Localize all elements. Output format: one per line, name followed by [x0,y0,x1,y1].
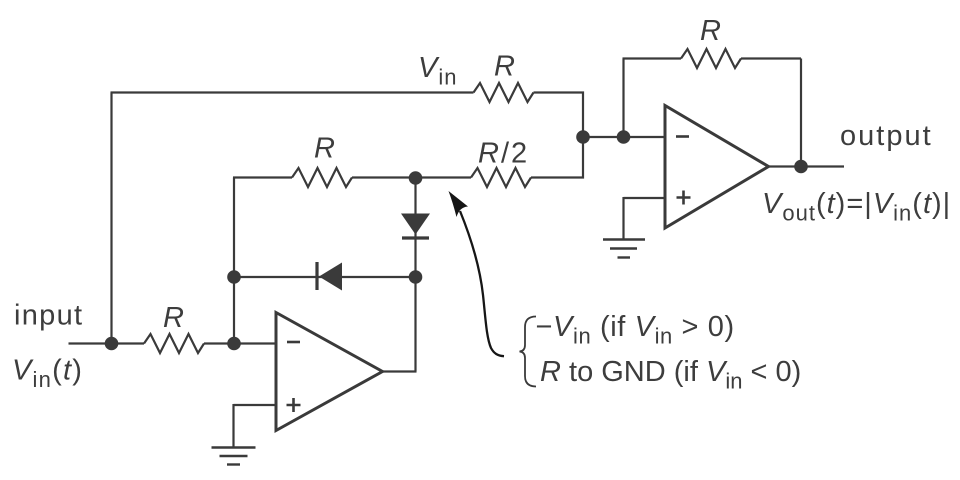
op-amp U1 [276,313,383,431]
svg-text:R to GND (if Vin < 0): R to GND (if Vin < 0) [540,356,801,394]
node U1 inverting input [227,337,241,351]
resistor R5 (feedback R of U2) [681,49,741,68]
node D1 anode / R junction [409,171,423,185]
wire U1 noninverting input to ground [234,404,277,448]
svg-text:input: input [14,300,83,332]
svg-text:−Vin (if Vin > 0): −Vin (if Vin > 0) [536,311,735,349]
wire U2 noninverting input to ground [624,197,666,240]
diode D1 (vertical, conducting down) [401,214,430,239]
svg-text:R: R [163,302,184,334]
svg-text:Vin(t): Vin(t) [12,355,83,393]
wire R4 right up to summing node [531,137,583,178]
node U2 output [794,160,808,174]
node summing left [576,130,590,144]
wire R3 to R4 through node [352,176,471,178]
ground (U2) [603,240,645,258]
wire left vertical from input node up to top rail [110,93,112,343]
svg-text:R/2: R/2 [478,138,529,170]
wire top rail to resistor R2 [111,91,474,93]
wire left feedback vertical x=234 [233,178,235,344]
wire summing node to U2 inverting input [583,136,665,138]
wire U2 output [769,165,845,167]
diode D2 (horizontal, pointing left) [317,262,342,291]
wire R2 right to corner [534,93,584,138]
wire U2 feedback right vertical [741,59,801,167]
resistor R3 (feedback R of U1) [292,168,352,187]
wire input R to op-amp U1 inverting input [204,342,276,344]
node diode branch right [409,270,423,284]
node summing right [617,130,631,144]
annotation brace [520,317,537,387]
node diode branch left [227,270,241,284]
node input [105,337,119,351]
ground (U1) [212,448,256,465]
wire U2 feedback left vertical [623,59,682,138]
wire right vertical through diode D1 [414,178,416,372]
svg-text:R: R [700,15,721,47]
annotation arrow [449,191,505,356]
wire U1 output [383,370,417,372]
svg-text:Vout(t)=|Vin(t)|: Vout(t)=|Vin(t)| [762,188,951,226]
op-amp U2 [665,106,769,229]
svg-text:R: R [494,51,515,83]
wire corner to resistor R3 [233,176,292,178]
wire diode branch horizontal [234,276,416,278]
svg-text:output: output [840,120,933,152]
resistor R4 (R/2) [471,168,531,187]
resistor R1 (input R) [144,334,204,353]
svg-text:R: R [314,133,335,165]
resistor R2 (Vin top R) [474,83,534,102]
wire input stub [69,342,145,344]
svg-text:Vin: Vin [418,52,457,90]
